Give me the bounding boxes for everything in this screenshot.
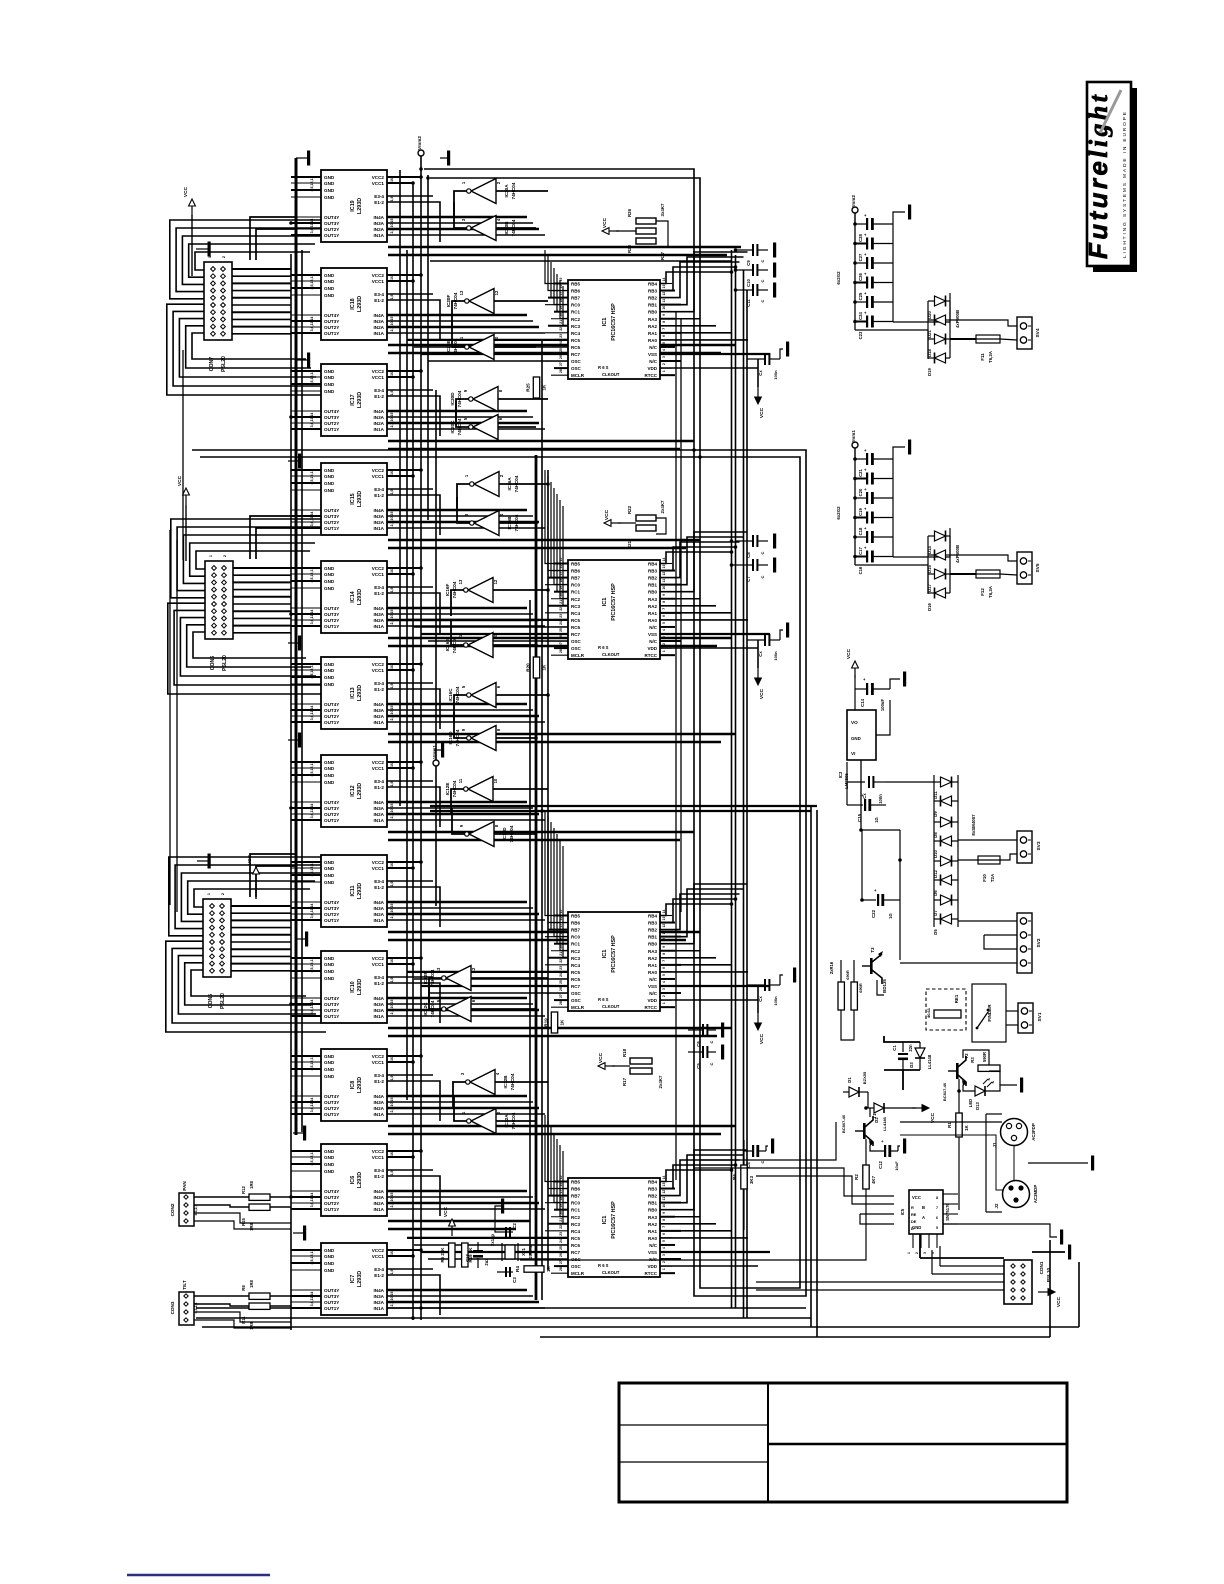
svg-text:GND: GND [324, 188, 335, 193]
svg-text:1,9: 1,9 [390, 782, 394, 787]
capacitor Cx 100n [747, 634, 780, 661]
svg-text:OUT2Y: OUT2Y [324, 714, 339, 719]
svg-text:IC12A: IC12A [504, 1114, 509, 1128]
svg-text:E3-4: E3-4 [374, 1267, 384, 1272]
svg-text:IC12C: IC12C [423, 1002, 428, 1016]
svg-text:27: 27 [559, 994, 563, 998]
svg-text:C3: C3 [512, 1277, 517, 1283]
svg-text:IN4A: IN4A [374, 313, 385, 318]
relay contact FINDER [972, 984, 1006, 1042]
svg-text:VI: VI [851, 751, 855, 756]
svg-text:1,9: 1,9 [390, 391, 394, 396]
svg-text:OSC: OSC [571, 366, 582, 371]
svg-text:N/C: N/C [649, 359, 658, 364]
ground [721, 1045, 724, 1060]
svg-text:VSS: VSS [648, 1250, 657, 1255]
svg-text:4xP600B: 4xP600B [955, 310, 960, 328]
svg-text:D16: D16 [927, 602, 932, 610]
svg-text:RC1: RC1 [571, 1208, 580, 1213]
svg-text:5: 5 [662, 1240, 666, 1242]
svg-text:9: 9 [662, 946, 666, 948]
svg-text:IN3A: IN3A [374, 806, 385, 811]
svg-text:OUT3Y: OUT3Y [324, 708, 339, 713]
svg-text:OUT1Y: OUT1Y [324, 1207, 339, 1212]
svg-text:C10: C10 [746, 278, 751, 286]
svg-text:RC0: RC0 [571, 935, 580, 940]
svg-text:2: 2 [662, 995, 666, 997]
svg-text:GND: GND [324, 873, 335, 878]
svg-text:74HC04: 74HC04 [453, 292, 458, 309]
svg-text:IN1A: IN1A [374, 1112, 385, 1117]
svg-text:28: 28 [559, 1267, 563, 1271]
svg-text:OUT1Y: OUT1Y [324, 1306, 339, 1311]
svg-text:19: 19 [559, 1204, 563, 1208]
svg-text:RC4: RC4 [571, 611, 580, 616]
ground [197, 854, 211, 869]
svg-text:CLKOUT: CLKOUT [602, 372, 620, 377]
footer rule [127, 1574, 270, 1576]
svg-text:RC4: RC4 [571, 1229, 580, 1234]
svg-text:C14: C14 [860, 698, 865, 707]
svg-text:RB2: RB2 [648, 576, 657, 581]
svg-text:1,9: 1,9 [390, 1076, 394, 1081]
svg-text:GND: GND [324, 956, 335, 961]
inverter IC16C 74HC04 [448, 683, 501, 708]
svg-text:PSL20: PSL20 [220, 993, 226, 1009]
svg-text:11: 11 [459, 336, 464, 341]
svg-text:74HC04: 74HC04 [453, 338, 458, 355]
ground [293, 1126, 306, 1141]
svg-text:1: 1 [209, 555, 213, 557]
svg-text:OUT1Y: OUT1Y [324, 427, 339, 432]
svg-text:6: 6 [662, 335, 666, 337]
capacitor C10 [735, 264, 768, 287]
svg-text:IC16A: IC16A [507, 477, 512, 491]
svg-text:RA3: RA3 [648, 949, 657, 954]
svg-text:27: 27 [559, 1260, 563, 1264]
capacitor C2 15p [497, 1223, 517, 1237]
svg-text:5: 5 [662, 622, 666, 624]
svg-text:1: 1 [208, 256, 212, 258]
ground [903, 672, 906, 687]
svg-text:16: 16 [390, 1152, 394, 1156]
svg-text:IN1A: IN1A [374, 1207, 385, 1212]
svg-text:GND: GND [324, 195, 335, 200]
svg-text:OUT2Y: OUT2Y [324, 1300, 339, 1305]
svg-text:RB2: RB2 [648, 928, 657, 933]
svg-text:OUT3Y: OUT3Y [324, 319, 339, 324]
svg-text:IC10: IC10 [350, 981, 356, 992]
svg-text:16: 16 [559, 1183, 563, 1187]
inverter IC20D 74HC04 [450, 387, 503, 412]
diode D18 P600B [927, 334, 950, 357]
IC IC13 L293D driver [291, 657, 407, 729]
svg-text:IN2A: IN2A [374, 325, 385, 330]
svg-text:RB3: RB3 [648, 289, 657, 294]
svg-text:4xP600B: 4xP600B [955, 545, 960, 563]
svg-text:1,9: 1,9 [390, 684, 394, 689]
svg-text:13: 13 [459, 290, 464, 295]
svg-text:VSS: VSS [648, 632, 657, 637]
svg-text:IN2A: IN2A [374, 1106, 385, 1111]
svg-text:VCC1: VCC1 [372, 279, 385, 284]
svg-text:3,6,11,14: 3,6,11,14 [310, 317, 314, 332]
ground [773, 558, 776, 573]
IC5 SN75176 transceiver [900, 1190, 958, 1254]
svg-text:R15: R15 [241, 1217, 246, 1225]
capacitor C19 [855, 487, 893, 516]
resistor network R21 R22 2x4K7 [618, 500, 666, 549]
svg-text:RA3: RA3 [648, 1215, 657, 1220]
svg-text:C: C [760, 1160, 765, 1163]
svg-text:26: 26 [559, 635, 563, 639]
svg-text:1: 1 [662, 1268, 666, 1270]
svg-text:8: 8 [662, 321, 666, 323]
svg-text:SV4: SV4 [1035, 328, 1041, 337]
svg-text:IN2A: IN2A [374, 812, 385, 817]
svg-text:D12: D12 [933, 869, 938, 877]
svg-text:RTCC: RTCC [645, 1271, 658, 1276]
connector SV4 [1017, 317, 1041, 349]
svg-text:OUT1Y: OUT1Y [324, 526, 339, 531]
svg-text:T2: T2 [964, 1053, 969, 1059]
inverter IC12E 74HC04 [445, 777, 498, 802]
svg-text:E1-2: E1-2 [374, 200, 384, 205]
svg-text:18: 18 [559, 931, 563, 935]
microcontroller U3 PIC16C57-HSP [545, 910, 681, 1011]
ground [771, 1139, 774, 1154]
svg-text:GND: GND [324, 760, 335, 765]
svg-text:GND: GND [324, 566, 335, 571]
svg-text:C1: C1 [892, 1045, 897, 1051]
svg-text:RA3: RA3 [648, 597, 657, 602]
svg-text:RB7: RB7 [571, 576, 580, 581]
svg-text:L293D: L293D [357, 491, 363, 507]
svg-text:RA1: RA1 [648, 963, 657, 968]
svg-text:GND: GND [324, 1067, 335, 1072]
svg-text:CON7: CON7 [209, 357, 215, 372]
svg-text:CON6: CON6 [210, 656, 216, 671]
VCC supply arrow [183, 186, 195, 216]
svg-text:R26: R26 [627, 208, 632, 217]
svg-text:10: 10 [662, 586, 666, 590]
svg-text:CON2: CON2 [170, 1203, 175, 1216]
svg-text:6x2G2: 6x2G2 [836, 506, 841, 520]
svg-text:74HC04: 74HC04 [457, 418, 462, 435]
svg-text:1G: 1G [888, 913, 893, 919]
svg-text:IN1A: IN1A [374, 1014, 385, 1019]
svg-text:RB1: RB1 [648, 1201, 657, 1206]
svg-text:GND: GND [324, 1268, 335, 1273]
svg-text:L293D: L293D [357, 883, 363, 899]
svg-text:IC11: IC11 [350, 885, 356, 896]
connector CON7 PSL20 [204, 256, 232, 372]
svg-text:VCC1: VCC1 [372, 1060, 385, 1065]
svg-text:2,7,10,15: 2,7,10,15 [390, 413, 394, 428]
svg-text:R18: R18 [622, 1048, 627, 1057]
svg-text:IN1A: IN1A [374, 1306, 385, 1311]
svg-text:N/C: N/C [649, 1243, 658, 1248]
svg-text:IN2A: IN2A [374, 520, 385, 525]
svg-text:17: 17 [559, 572, 563, 576]
ground [773, 283, 776, 298]
svg-text:20: 20 [559, 593, 563, 597]
IC IC6 L293D driver [291, 1144, 407, 1216]
svg-text:19: 19 [559, 586, 563, 590]
svg-text:VCC2: VCC2 [372, 760, 385, 765]
svg-text:13: 13 [662, 565, 666, 569]
svg-text:GND: GND [324, 468, 335, 473]
svg-text:CON1: CON1 [1039, 1261, 1044, 1274]
svg-text:7: 7 [662, 328, 666, 330]
diode D8 SM4007 [933, 817, 958, 838]
diode D20 P600B [927, 296, 950, 319]
svg-text:4,5,12,13: 4,5,12,13 [310, 470, 314, 485]
svg-text:RE1: RE1 [954, 994, 959, 1003]
svg-text:VCC: VCC [1056, 1296, 1062, 1307]
svg-text:IN2A: IN2A [374, 912, 385, 917]
svg-text:IC12F: IC12F [423, 972, 428, 985]
svg-text:20: 20 [559, 945, 563, 949]
svg-text:16: 16 [390, 276, 394, 280]
capacitor C21 [855, 448, 893, 477]
svg-text:5: 5 [662, 974, 666, 976]
svg-text:C26: C26 [858, 272, 863, 280]
ground [196, 242, 211, 257]
svg-text:RB1: RB1 [648, 583, 657, 588]
diode D15 P600B [927, 550, 950, 573]
inverter IC12F 74HC04 [423, 966, 476, 991]
svg-text:1K: 1K [560, 1019, 565, 1026]
svg-text:18: 18 [559, 579, 563, 583]
capacitor C22 1G [862, 888, 900, 919]
svg-text:GND: GND [324, 175, 335, 180]
ground [908, 440, 911, 455]
svg-text:E1-2: E1-2 [374, 1174, 384, 1179]
svg-text:IN3A: IN3A [374, 415, 385, 420]
svg-text:D8: D8 [933, 832, 938, 838]
svg-text:IN4A: IN4A [374, 409, 385, 414]
svg-text:690R: 690R [858, 983, 863, 993]
net terminal Vmm1 [432, 745, 439, 766]
svg-text:E3-4: E3-4 [374, 975, 384, 980]
svg-text:RC3: RC3 [571, 324, 580, 329]
svg-text:E3-4: E3-4 [374, 292, 384, 297]
svg-text:OUT4Y: OUT4Y [324, 702, 339, 707]
svg-text:6: 6 [662, 967, 666, 969]
svg-text:E1-2: E1-2 [374, 394, 384, 399]
svg-text:11: 11 [458, 634, 463, 639]
svg-text:2,7,10,15: 2,7,10,15 [390, 1292, 394, 1307]
svg-text:VCC1: VCC1 [372, 866, 385, 871]
svg-text:OUT1Y: OUT1Y [324, 1014, 339, 1019]
svg-text:RA2: RA2 [648, 956, 657, 961]
svg-text:16: 16 [390, 372, 394, 376]
svg-text:3,6,11,14: 3,6,11,14 [310, 1193, 314, 1208]
svg-text:27: 27 [559, 642, 563, 646]
svg-text:74HC04: 74HC04 [430, 969, 435, 986]
svg-text:OUT2Y: OUT2Y [324, 325, 339, 330]
svg-text:GND: GND [324, 1162, 335, 1167]
svg-text:GND: GND [324, 474, 335, 479]
svg-text:3,6,11,14: 3,6,11,14 [310, 1098, 314, 1113]
svg-text:OUT3Y: OUT3Y [324, 1002, 339, 1007]
svg-text:OUT4Y: OUT4Y [324, 508, 339, 513]
XLR jack J1 AC3FDP [986, 1114, 1036, 1212]
svg-text:VCC1: VCC1 [372, 668, 385, 673]
ground [1068, 1245, 1071, 1260]
svg-text:IC12: IC12 [350, 785, 356, 796]
fuse F11 T6,3A [950, 335, 1000, 363]
svg-text:4,5,12,13: 4,5,12,13 [310, 762, 314, 777]
svg-text:GND: GND [324, 375, 335, 380]
svg-text:OUT3Y: OUT3Y [324, 612, 339, 617]
svg-text:VCC: VCC [177, 475, 183, 486]
svg-text:2: 2 [223, 555, 227, 557]
svg-text:RC4: RC4 [571, 331, 580, 336]
svg-text:GND: GND [324, 1169, 335, 1174]
svg-text:GND: GND [324, 1074, 335, 1079]
svg-text:IN3A: IN3A [374, 906, 385, 911]
svg-text:RB5: RB5 [571, 282, 580, 287]
svg-text:VSS: VSS [648, 984, 657, 989]
svg-text:AC3FDP: AC3FDP [1031, 1123, 1036, 1141]
resistor R4 1K [515, 1265, 551, 1272]
capacitor C12 10uF [876, 1139, 899, 1171]
svg-text:L293D: L293D [357, 589, 363, 605]
svg-text:VCC1: VCC1 [372, 962, 385, 967]
svg-text:RTCC: RTCC [645, 1005, 658, 1010]
svg-text:10: 10 [493, 778, 498, 783]
svg-text:OSC: OSC [571, 991, 582, 996]
svg-text:RB3: RB3 [648, 1187, 657, 1192]
svg-text:100n: 100n [878, 794, 883, 804]
capacitor C14 100uF [855, 677, 890, 711]
svg-text:GND: GND [324, 766, 335, 771]
svg-text:GND: GND [324, 286, 335, 291]
svg-text:RA0: RA0 [648, 338, 657, 343]
svg-text:GND: GND [324, 773, 335, 778]
ground [1091, 1156, 1094, 1171]
svg-text:L293D: L293D [357, 392, 363, 408]
diode D12 SM4007 [933, 856, 958, 878]
svg-text:23: 23 [559, 966, 563, 970]
svg-text:2,7,10,15: 2,7,10,15 [390, 1000, 394, 1015]
svg-text:IN1A: IN1A [374, 624, 385, 629]
svg-text:C: C [709, 1040, 714, 1043]
svg-text:C: C [760, 259, 765, 262]
svg-text:IN2A: IN2A [374, 1008, 385, 1013]
svg-text:IN1A: IN1A [374, 331, 385, 336]
svg-text:19: 19 [559, 938, 563, 942]
svg-text:E1-2: E1-2 [374, 687, 384, 692]
svg-text:40.61: 40.61 [926, 1007, 931, 1018]
svg-text:24: 24 [559, 621, 563, 625]
svg-text:13: 13 [662, 917, 666, 921]
svg-text:OUT1Y: OUT1Y [324, 1112, 339, 1117]
svg-text:VCC: VCC [247, 854, 253, 865]
capacitor C11 [735, 284, 768, 307]
svg-text:RA1: RA1 [648, 331, 657, 336]
svg-text:L293D: L293D [357, 685, 363, 701]
svg-text:E1-2: E1-2 [374, 298, 384, 303]
svg-text:IC20B: IC20B [504, 221, 509, 235]
capacitor C1 22n [892, 1042, 913, 1070]
svg-text:14: 14 [662, 1176, 666, 1180]
svg-text:PIC16C57 HSP: PIC16C57 HSP [611, 303, 617, 341]
svg-text:T1: T1 [872, 1113, 877, 1119]
svg-text:11: 11 [662, 1197, 666, 1201]
svg-text:CLKOUT: CLKOUT [602, 1270, 620, 1275]
resistor R20 1K [526, 657, 547, 678]
svg-text:R 6 S: R 6 S [598, 365, 609, 370]
svg-text:16: 16 [559, 285, 563, 289]
svg-text:OUT3Y: OUT3Y [324, 806, 339, 811]
svg-text:R12: R12 [241, 1185, 246, 1193]
svg-text:C: C [709, 1062, 714, 1065]
svg-text:1: 1 [662, 1002, 666, 1004]
svg-text:T6,3A: T6,3A [988, 350, 993, 363]
svg-text:3,6,11,14: 3,6,11,14 [310, 1000, 314, 1015]
svg-text:R20: R20 [526, 663, 531, 672]
svg-text:74HC04: 74HC04 [509, 825, 514, 842]
svg-text:21: 21 [559, 320, 563, 324]
svg-text:VDD: VDD [647, 366, 657, 371]
svg-text:MCLR: MCLR [571, 373, 585, 378]
diode D11 SM4007 [933, 777, 958, 799]
svg-text:R17: R17 [622, 1077, 627, 1086]
svg-text:RC2: RC2 [571, 597, 580, 602]
svg-text:VCC2: VCC2 [372, 273, 385, 278]
svg-text:MCLR: MCLR [571, 1005, 585, 1010]
IC IC11 L293D driver [291, 855, 407, 927]
svg-text:F12: F12 [980, 588, 985, 596]
connector SV1 [1018, 1003, 1043, 1033]
ground [721, 1023, 724, 1038]
svg-text:21: 21 [559, 952, 563, 956]
diode D16 P600B [927, 588, 950, 611]
IC IC12 L293D driver [291, 755, 407, 827]
svg-text:RB7: RB7 [571, 928, 580, 933]
net terminal Vmm2 [417, 136, 424, 156]
svg-text:26: 26 [559, 987, 563, 991]
svg-text:6: 6 [662, 615, 666, 617]
svg-text:IC1: IC1 [602, 950, 608, 959]
resistor R19 1K [544, 1012, 565, 1033]
svg-text:16: 16 [390, 763, 394, 767]
svg-text:VCC: VCC [602, 217, 608, 228]
VCC supply arrow [846, 648, 858, 678]
svg-text:2: 2 [222, 256, 226, 258]
svg-text:RC4: RC4 [571, 963, 580, 968]
svg-text:RC2: RC2 [571, 1215, 580, 1220]
ground [440, 151, 450, 166]
svg-text:BZX55: BZX55 [862, 1071, 867, 1084]
svg-text:4K7: 4K7 [871, 1175, 876, 1184]
capacitor C25 [855, 272, 893, 301]
svg-text:74HC04: 74HC04 [455, 686, 460, 703]
svg-text:E3-4: E3-4 [374, 879, 384, 884]
svg-text:IN4A: IN4A [374, 800, 385, 805]
svg-text:2: 2 [662, 1261, 666, 1263]
svg-text:C8: C8 [746, 552, 751, 558]
svg-text:7: 7 [662, 608, 666, 610]
svg-text:2x4K7: 2x4K7 [658, 1075, 663, 1088]
svg-text:RB3: RB3 [648, 921, 657, 926]
svg-text:N/C: N/C [649, 639, 658, 644]
svg-text:C28: C28 [858, 233, 863, 241]
svg-text:C: C [760, 279, 765, 282]
